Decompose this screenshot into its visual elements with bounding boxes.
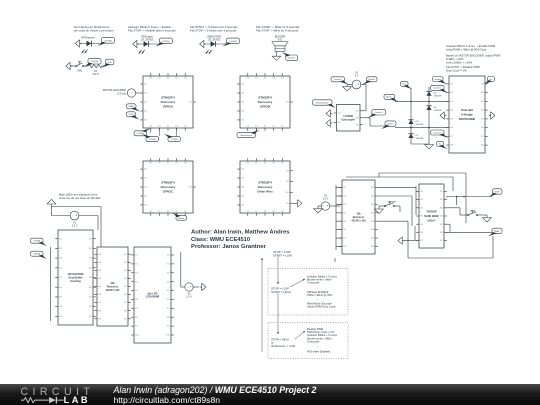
svg-text:H-Bridge: H-Bridge [461, 113, 473, 117]
svg-text:IO3: IO3 [144, 102, 147, 104]
svg-text:5 seconds: 5 seconds [307, 281, 320, 285]
svg-text:IO4: IO4 [420, 216, 423, 218]
svg-text:IO1: IO1 [338, 113, 341, 115]
svg-text:Control 2: Control 2 [433, 131, 442, 134]
svg-text:IO3: IO3 [356, 124, 359, 126]
svg-text:P3: P3 [176, 211, 178, 213]
svg-text:Inverting: Inverting [70, 280, 81, 283]
svg-text:IO6: IO6 [343, 229, 346, 231]
svg-text:1N4148: 1N4148 [416, 124, 424, 126]
svg-text:MotorControl: MotorControl [316, 101, 329, 104]
svg-text:P1: P1 [255, 211, 257, 213]
svg-text:Control 1: Control 1 [433, 87, 442, 90]
svg-text:Motor-: Motor- [387, 123, 393, 126]
svg-text:IO5: IO5 [144, 205, 147, 207]
svg-text:SN754410NE: SN754410NE [459, 117, 476, 121]
svg-text:-: - [72, 214, 73, 218]
svg-text:IO4: IO4 [98, 278, 101, 280]
svg-text:IO9: IO9 [124, 318, 127, 320]
svg-text:3.3V(N): 3.3V(N) [33, 254, 40, 256]
svg-text:P3: P3 [273, 78, 275, 80]
svg-text:P0: P0 [247, 163, 249, 165]
svg-text:P1: P1 [255, 78, 257, 80]
svg-text:Buzzer: Buzzer [288, 57, 295, 60]
svg-text:START = LOW: START = LOW [273, 254, 292, 258]
svg-text:IO1: IO1 [420, 191, 423, 193]
svg-text:IO3: IO3 [371, 204, 374, 206]
svg-text:IO7: IO7 [420, 240, 423, 242]
svg-text:Professor: Janos Grantner: Professor: Janos Grantner [191, 244, 267, 250]
svg-text:3.3V: 3.3V [107, 62, 112, 64]
svg-text:IO2: IO2 [241, 93, 244, 95]
svg-text:START: START [494, 230, 501, 233]
svg-text:IO5: IO5 [420, 224, 423, 226]
svg-text:every 200Hz + +10%: every 200Hz + +10% [446, 60, 473, 64]
svg-text:IO1: IO1 [241, 169, 244, 171]
svg-text:3.3V(N): 3.3V(N) [162, 41, 170, 43]
svg-text:SW1: SW1 [77, 70, 83, 72]
svg-text:IO3: IO3 [241, 102, 244, 104]
svg-text:Dual Half: Dual Half [461, 108, 473, 112]
svg-text:IO2: IO2 [135, 263, 138, 265]
svg-text:P4: P4 [184, 211, 186, 213]
svg-text:5.3 kHz: 5.3 kHz [117, 92, 126, 96]
svg-text:P3: P3 [273, 163, 275, 165]
svg-text:P2: P2 [167, 211, 169, 213]
svg-text:IO1: IO1 [371, 187, 374, 189]
svg-text:4116R 1-001: 4116R 1-001 [105, 289, 120, 292]
svg-text:1N4148: 1N4148 [434, 96, 442, 98]
svg-text:START = HIGH: START = HIGH [271, 290, 291, 294]
svg-text:IO2: IO2 [481, 92, 484, 94]
svg-text:↓: ↓ [317, 298, 318, 301]
svg-text:IO1: IO1 [189, 102, 192, 104]
svg-text:IO8: IO8 [135, 317, 138, 319]
svg-text:+: + [326, 204, 328, 208]
svg-text:IO2: IO2 [338, 122, 341, 124]
svg-text:IO4: IO4 [144, 111, 147, 113]
svg-text:Control 1: Control 1 [375, 111, 384, 114]
svg-text:IO6: IO6 [481, 127, 484, 129]
svg-text:IO3: IO3 [450, 101, 453, 103]
svg-text:STOP: STOP [470, 211, 476, 213]
svg-text:IO2: IO2 [89, 248, 92, 250]
svg-text:IO3: IO3 [89, 258, 92, 260]
svg-text:P2: P2 [264, 126, 266, 128]
svg-text:Initial PWM + 9kHz @ 50% Duty: Initial PWM + 9kHz @ 50% Duty [446, 47, 487, 51]
svg-text:IO7: IO7 [481, 136, 484, 138]
svg-text:3.3V(N): 3.3V(N) [149, 139, 156, 141]
svg-text:3.3 V: 3.3 V [72, 225, 78, 228]
svg-text:IO1: IO1 [59, 238, 62, 240]
svg-text:P4: P4 [281, 126, 283, 128]
svg-text:IO9: IO9 [98, 318, 101, 320]
svg-text:1N4148: 1N4148 [434, 110, 442, 112]
svg-text:GPIOC: GPIOC [163, 189, 174, 193]
svg-text:IR Receiver = LOW: IR Receiver = LOW [271, 344, 296, 348]
svg-text:P0: P0 [247, 78, 249, 80]
svg-text:P4: P4 [281, 78, 283, 80]
svg-text:P0: P0 [150, 163, 152, 165]
svg-text:LTA1000HR: LTA1000HR [146, 296, 160, 299]
svg-text:P3: P3 [273, 211, 275, 213]
svg-text:IO5: IO5 [440, 224, 443, 226]
svg-text:P0: P0 [150, 78, 152, 80]
svg-text:IO3: IO3 [98, 270, 101, 272]
svg-text:P2: P2 [264, 78, 266, 80]
svg-text:IO9: IO9 [59, 316, 62, 318]
svg-text:+: + [75, 214, 77, 218]
svg-text:P1: P1 [158, 211, 160, 213]
svg-text:4114R 1-103: 4114R 1-103 [351, 219, 366, 222]
svg-text:5 V: 5 V [355, 75, 359, 78]
svg-text:LTL 36TE3: LTL 36TE3 [208, 38, 221, 42]
svg-text:IO1: IO1 [124, 254, 127, 256]
svg-text:IO1: IO1 [481, 83, 484, 85]
svg-text:IO4: IO4 [124, 278, 127, 280]
svg-text:3.3 V: 3.3 V [323, 198, 329, 201]
svg-text:since we do not have an IR LED: since we do not have an IR LED [59, 196, 100, 200]
svg-text:Flip STOP -> 9kHz for 4 second: Flip STOP -> 9kHz for 4 seconds [256, 29, 299, 33]
svg-text:Flip STOP -> 5 blinks over 4 s: Flip STOP -> 5 blinks over 4 seconds [190, 29, 237, 33]
svg-text:IO4: IO4 [450, 110, 453, 112]
svg-text:IO3: IO3 [124, 270, 127, 272]
svg-text:IO5: IO5 [241, 120, 244, 122]
svg-text:IO2: IO2 [371, 196, 374, 198]
svg-text:3.3V(N): 3.3V(N) [229, 41, 237, 43]
svg-text:P1: P1 [158, 78, 160, 80]
svg-text:Author: Alan Irwin, Matthew An: Author: Alan Irwin, Matthew Andres [191, 230, 290, 236]
svg-text:IO1: IO1 [286, 102, 289, 104]
svg-text:IO7: IO7 [124, 302, 127, 304]
svg-text:4 seconds: 4 seconds [307, 340, 320, 344]
svg-text:IO1: IO1 [167, 255, 170, 257]
svg-text:IO2: IO2 [144, 178, 147, 180]
svg-text:3.3V(N): 3.3V(N) [171, 139, 178, 141]
svg-text:IO4: IO4 [89, 267, 92, 269]
svg-text:1.2 V: 1.2 V [186, 296, 192, 299]
svg-text:IO1: IO1 [343, 187, 346, 189]
svg-text:IO10: IO10 [135, 335, 139, 337]
svg-text:IO2: IO2 [98, 262, 101, 264]
svg-text:IO3: IO3 [481, 101, 484, 103]
svg-text:IO8: IO8 [89, 306, 92, 308]
svg-text:IO1: IO1 [144, 84, 147, 86]
svg-text:IO5: IO5 [89, 277, 92, 279]
svg-text:IO9: IO9 [135, 326, 138, 328]
svg-text:IO4: IO4 [135, 281, 138, 283]
svg-text:IO5: IO5 [167, 290, 170, 292]
svg-text:IO1: IO1 [356, 110, 359, 112]
svg-text:IO5: IO5 [98, 286, 101, 288]
svg-text:IO7: IO7 [440, 240, 443, 242]
svg-text:IO2: IO2 [440, 199, 443, 201]
svg-text:+: + [190, 285, 192, 289]
svg-text:IO2: IO2 [356, 117, 359, 119]
svg-text:STOP = HIGH: STOP = HIGH [271, 337, 289, 341]
svg-text:IO7: IO7 [167, 308, 170, 310]
svg-text:IO1: IO1 [89, 238, 92, 240]
svg-text:1N4148: 1N4148 [416, 138, 424, 140]
svg-text:IO2: IO2 [59, 248, 62, 250]
svg-text:IO8: IO8 [167, 317, 170, 319]
svg-text:IO6: IO6 [59, 287, 62, 289]
svg-text:P2: P2 [167, 163, 169, 165]
svg-text:IO2: IO2 [241, 178, 244, 180]
svg-text:P3: P3 [273, 126, 275, 128]
svg-text:IO4: IO4 [286, 203, 289, 205]
svg-text:LAB: LAB [64, 395, 90, 405]
svg-text:NAND NAND: NAND NAND [424, 215, 439, 218]
svg-text:GPIOB: GPIOB [260, 104, 271, 108]
svg-text:3.3V(N): 3.3V(N) [33, 241, 40, 243]
svg-text:Control Y: Control Y [334, 78, 343, 81]
svg-text:IO8: IO8 [98, 310, 101, 312]
svg-text:P1: P1 [158, 126, 160, 128]
svg-text:IO1: IO1 [440, 191, 443, 193]
svg-text:IO7: IO7 [59, 296, 62, 298]
svg-text:IO1: IO1 [98, 254, 101, 256]
svg-text:IO3: IO3 [420, 207, 423, 209]
svg-text:IO5: IO5 [124, 286, 127, 288]
svg-text:IO6: IO6 [98, 294, 101, 296]
svg-text:IO5: IO5 [59, 277, 62, 279]
svg-text:IO6: IO6 [135, 299, 138, 301]
svg-text:P4: P4 [281, 163, 283, 165]
svg-text:IO2: IO2 [167, 263, 170, 265]
svg-text:IO1: IO1 [241, 84, 244, 86]
svg-text:IO8: IO8 [481, 145, 484, 147]
svg-text:8 Ω: 8 Ω [278, 38, 282, 42]
svg-text:IO3: IO3 [144, 187, 147, 189]
svg-text:IO8: IO8 [59, 306, 62, 308]
svg-text:P4: P4 [184, 126, 186, 128]
svg-text:PWM + 9kHz @ 30%: PWM + 9kHz @ 30% [307, 293, 333, 297]
svg-text:Flip STOP -> Disable after 5 s: Flip STOP -> Disable after 5 seconds [128, 29, 176, 33]
svg-text:IO7: IO7 [371, 238, 374, 240]
svg-text:IO4: IO4 [144, 196, 147, 198]
svg-text:IO7: IO7 [135, 308, 138, 310]
svg-text:IO7: IO7 [343, 238, 346, 240]
svg-text:IO5: IO5 [450, 118, 453, 120]
svg-text:IR Receiver: IR Receiver [81, 35, 95, 39]
svg-text:P0: P0 [247, 211, 249, 213]
svg-text:IO6: IO6 [167, 299, 170, 301]
svg-text:we used an Active Low button: we used an Active Low button [74, 29, 114, 33]
svg-text:IO6: IO6 [371, 229, 374, 231]
svg-text:+: + [357, 83, 359, 87]
svg-text:P2: P2 [167, 78, 169, 80]
svg-text:220 Ω: 220 Ω [92, 74, 98, 76]
svg-text:3.3V(N): 3.3V(N) [91, 61, 99, 63]
svg-text:IO2: IO2 [420, 199, 423, 201]
svg-text:IO2: IO2 [124, 262, 127, 264]
svg-text:IO4: IO4 [241, 196, 244, 198]
svg-text:IO1: IO1 [286, 170, 289, 172]
svg-text:IO4: IO4 [241, 111, 244, 113]
svg-text:IO2: IO2 [450, 92, 453, 94]
svg-text:IO10: IO10 [166, 335, 170, 337]
svg-text:IO8: IO8 [371, 246, 374, 248]
svg-text:P4: P4 [281, 211, 283, 213]
svg-text:P0: P0 [247, 126, 249, 128]
svg-text:IO7: IO7 [89, 296, 92, 298]
svg-text:IO4: IO4 [481, 110, 484, 112]
svg-text:(AB)+Y: (AB)+Y [427, 219, 435, 222]
svg-text:IO2: IO2 [144, 93, 147, 95]
svg-text:P0: P0 [150, 211, 152, 213]
svg-text:MotorControl: MotorControl [240, 134, 252, 137]
svg-text:Other Pins: Other Pins [257, 189, 273, 193]
svg-text:IO5: IO5 [144, 120, 147, 122]
svg-text:IO3: IO3 [440, 207, 443, 209]
svg-text:IO4: IO4 [167, 281, 170, 283]
svg-text:74HC00P: 74HC00P [426, 211, 437, 214]
svg-text:IO5: IO5 [241, 205, 244, 207]
svg-text:P1: P1 [158, 163, 160, 165]
svg-text:IO2: IO2 [286, 181, 289, 183]
svg-text:IO8: IO8 [343, 246, 346, 248]
svg-text:LTV846D: LTV846D [343, 115, 353, 118]
svg-text:IO6: IO6 [124, 294, 127, 296]
svg-text:↓: ↓ [317, 345, 318, 348]
svg-text:~: ~ [131, 91, 133, 95]
svg-text:IO3: IO3 [167, 272, 170, 274]
svg-text:IO4: IO4 [59, 267, 62, 269]
svg-text:STOP: STOP [495, 191, 501, 193]
svg-text:IO5: IO5 [343, 221, 346, 223]
svg-text:IO6: IO6 [450, 127, 453, 129]
svg-text:IO5: IO5 [135, 290, 138, 292]
svg-text:P1: P1 [255, 126, 257, 128]
svg-text:P3: P3 [176, 126, 178, 128]
svg-text:Optocoupler: Optocoupler [341, 118, 355, 121]
svg-text:Duty Cycle = 0%: Duty Cycle = 0% [446, 68, 467, 72]
svg-text:IO7: IO7 [450, 136, 453, 138]
svg-text:Class: WMU ECE4510: Class: WMU ECE4510 [191, 237, 250, 243]
svg-text:IO5: IO5 [481, 118, 484, 120]
svg-text:IO1: IO1 [135, 255, 138, 257]
svg-text:P2: P2 [264, 211, 266, 213]
svg-text:IO4: IO4 [371, 212, 374, 214]
svg-text:IO9: IO9 [167, 326, 170, 328]
svg-text:IO3: IO3 [59, 258, 62, 260]
svg-text:Enable: Enable [369, 79, 376, 81]
svg-text:IO4: IO4 [343, 212, 346, 214]
svg-text:IO1: IO1 [189, 187, 192, 189]
svg-text:Adjust PWM Duty Cycle: Adjust PWM Duty Cycle [307, 305, 336, 309]
svg-text:IO3: IO3 [135, 272, 138, 274]
svg-text:IO6: IO6 [420, 232, 423, 234]
svg-text:3.3V(N): 3.3V(N) [104, 40, 112, 42]
svg-text:IO3: IO3 [286, 192, 289, 194]
svg-text:IO7: IO7 [98, 302, 101, 304]
svg-text:P2: P2 [264, 163, 266, 165]
svg-text:LTL 36TE3: LTL 36TE3 [141, 38, 154, 42]
svg-text:-: - [187, 285, 188, 289]
svg-text:START: START [390, 200, 398, 203]
svg-text:-: - [323, 204, 324, 208]
svg-text:IR Emitter Disabled: IR Emitter Disabled [307, 349, 331, 353]
svg-text:IO2: IO2 [343, 196, 346, 198]
svg-text:IO3: IO3 [343, 204, 346, 206]
svg-text:P4: P4 [184, 78, 186, 80]
svg-text:P3: P3 [176, 78, 178, 80]
svg-text:IO9: IO9 [89, 316, 92, 318]
svg-text:IO6: IO6 [89, 287, 92, 289]
svg-text:P1: P1 [255, 163, 257, 165]
svg-text:GPIOA: GPIOA [163, 104, 174, 108]
svg-text:P4: P4 [184, 163, 186, 165]
svg-text:IO6: IO6 [440, 232, 443, 234]
svg-text:Buzzer: Buzzer [178, 218, 185, 220]
svg-text:IO8: IO8 [450, 145, 453, 147]
svg-text:P2: P2 [167, 126, 169, 128]
svg-text:IO3: IO3 [241, 187, 244, 189]
svg-text:P0: P0 [150, 126, 152, 128]
svg-text:IO5: IO5 [371, 221, 374, 223]
svg-text:IO8: IO8 [124, 310, 127, 312]
svg-text:IO1: IO1 [450, 83, 453, 85]
svg-text:-: - [354, 83, 355, 87]
svg-text:P3: P3 [176, 163, 178, 165]
svg-text:IO4: IO4 [440, 216, 443, 218]
svg-text:IO1: IO1 [144, 169, 147, 171]
